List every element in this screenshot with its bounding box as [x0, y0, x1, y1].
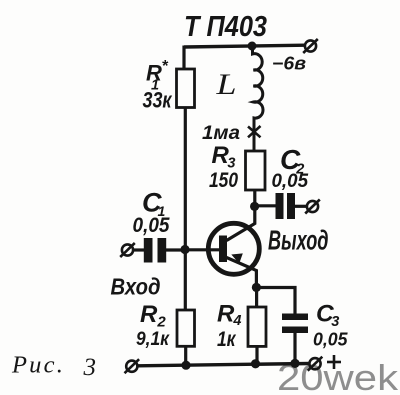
resistor R4: [248, 307, 266, 346]
svg-text:R4: R4: [217, 301, 241, 330]
node rail-R2 junction: [181, 361, 190, 370]
transistor VT (П403 PNP): [208, 206, 259, 287]
svg-text:0,05: 0,05: [133, 214, 170, 237]
wire R4 to rail: [255, 346, 258, 364]
resistor R1: [177, 69, 195, 108]
wire top rail: [184, 45, 305, 47]
terminal output: [305, 200, 320, 214]
svg-text:33к: 33к: [143, 88, 173, 113]
wire C3 to rail: [293, 333, 296, 364]
svg-text:150: 150: [209, 169, 238, 192]
svg-text:R2: R2: [140, 301, 166, 331]
wire left branch top (rail to R1): [182, 46, 185, 70]
svg-text:Выход: Выход: [268, 224, 329, 255]
wire C1 to base junction: [166, 248, 185, 251]
node top-rail junction: [248, 42, 257, 51]
terminal top-right (-6v supply): [303, 39, 318, 53]
wire bottom rail: [138, 364, 310, 366]
svg-text:9,1к: 9,1к: [136, 329, 170, 350]
wire C2 to output terminal: [295, 205, 306, 208]
svg-text:0,05: 0,05: [272, 170, 310, 192]
resistor R3: [246, 151, 266, 190]
wire terminal to C1: [133, 248, 144, 251]
svg-text:Вход: Вход: [111, 274, 161, 300]
node base junction: [180, 245, 189, 254]
wire base lead: [185, 248, 219, 251]
wire emitter junction to R4: [255, 287, 258, 307]
svg-text:0,05: 0,05: [313, 329, 348, 350]
svg-text:−6в: −6в: [272, 54, 306, 74]
node emitter junction: [252, 283, 261, 292]
inductor L: [253, 44, 263, 151]
terminal bottom-right: [308, 357, 323, 371]
terminal bottom-left: [125, 359, 140, 373]
label + (positive rail): [327, 355, 341, 369]
wire R3 to collector junction: [253, 190, 256, 206]
capacitor C3: [282, 314, 308, 334]
node rail-C3 junction: [290, 359, 299, 368]
wire junction to C2: [255, 204, 276, 207]
svg-text:*: *: [162, 58, 169, 75]
terminal input: [120, 243, 135, 257]
svg-text:1к: 1к: [217, 328, 237, 351]
wire R2 to rail: [184, 346, 187, 366]
node collector junction: [250, 202, 259, 211]
node rail-R4 junction: [251, 359, 260, 368]
svg-text:L: L: [215, 68, 236, 101]
svg-text:C3: C3: [316, 301, 339, 331]
svg-text:Рис.: Рис.: [11, 352, 65, 379]
svg-text:3: 3: [83, 354, 97, 381]
svg-text:R3: R3: [212, 142, 236, 172]
wire left branch middle (R1 to R2): [184, 108, 187, 311]
capacitor C1: [144, 238, 166, 263]
resistor R2: [177, 310, 195, 346]
capacitor C2: [276, 193, 296, 219]
svg-text:1ма: 1ма: [202, 122, 240, 144]
x-mark current measuring point: [248, 126, 261, 137]
svg-text:Т П403: Т П403: [184, 11, 267, 43]
wire emitter junction to C3: [256, 288, 295, 315]
